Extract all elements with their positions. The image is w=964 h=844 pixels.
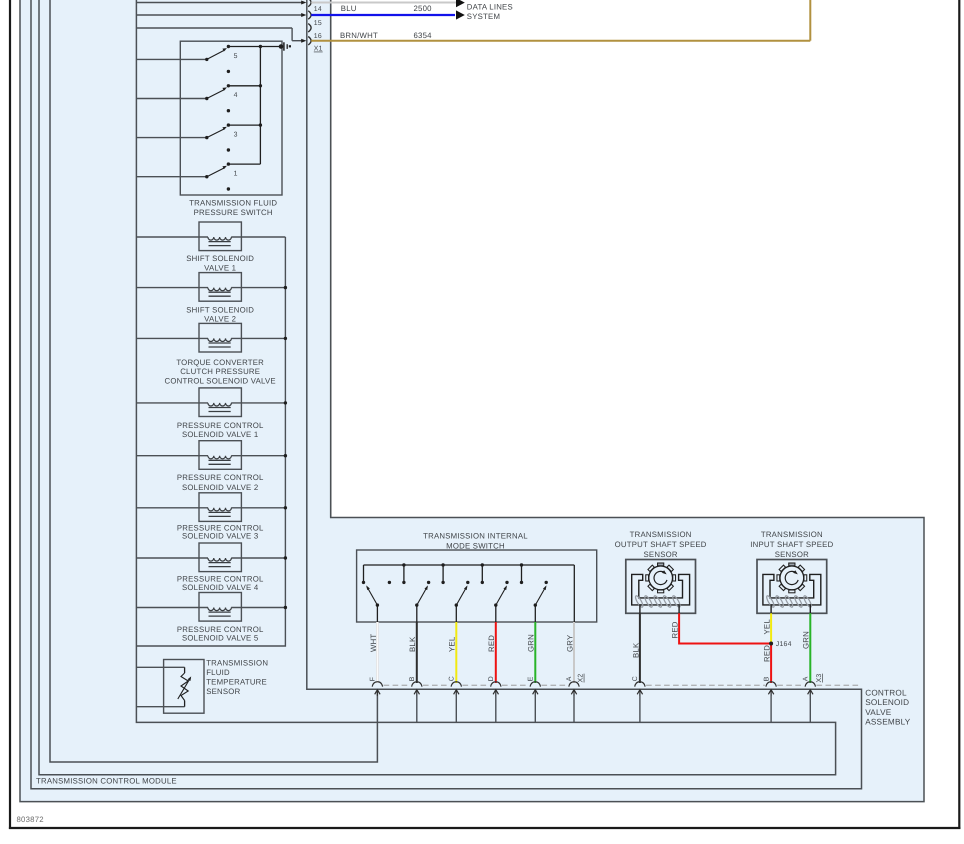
svg-text:TRANSMISSION INTERNAL: TRANSMISSION INTERNAL (423, 532, 528, 541)
svg-text:SENSOR: SENSOR (775, 550, 809, 559)
svg-text:X3: X3 (816, 674, 823, 683)
svg-text:2500: 2500 (414, 4, 433, 13)
svg-text:FLUID: FLUID (206, 668, 230, 677)
svg-text:VALVE 2: VALVE 2 (204, 315, 236, 324)
svg-text:14: 14 (314, 6, 322, 13)
svg-text:SOLENOID VALVE 5: SOLENOID VALVE 5 (182, 634, 259, 643)
svg-text:4: 4 (234, 92, 238, 99)
svg-text:RED: RED (487, 635, 496, 652)
svg-text:YEL: YEL (448, 636, 457, 652)
svg-text:RED: RED (763, 645, 772, 662)
svg-text:B: B (763, 676, 770, 681)
svg-text:F: F (370, 677, 377, 681)
svg-text:TEMPERATURE: TEMPERATURE (206, 677, 267, 686)
svg-text:6354: 6354 (414, 31, 433, 40)
svg-text:SHIFT SOLENOID: SHIFT SOLENOID (186, 254, 254, 263)
svg-text:VALVE: VALVE (865, 708, 892, 717)
svg-text:SOLENOID VALVE 1: SOLENOID VALVE 1 (182, 430, 258, 439)
svg-text:TRANSMISSION: TRANSMISSION (206, 659, 268, 668)
svg-text:SOLENOID VALVE 4: SOLENOID VALVE 4 (182, 583, 259, 592)
svg-text:X1: X1 (314, 46, 323, 53)
svg-text:BLU: BLU (341, 4, 357, 13)
svg-text:WHT: WHT (369, 634, 378, 652)
svg-text:D: D (488, 676, 495, 681)
svg-text:VALVE 1: VALVE 1 (204, 264, 236, 273)
svg-text:OUTPUT SHAFT SPEED: OUTPUT SHAFT SPEED (615, 540, 707, 549)
svg-text:SENSOR: SENSOR (644, 550, 678, 559)
svg-text:J164: J164 (776, 641, 792, 648)
svg-text:E: E (528, 676, 535, 681)
svg-text:1: 1 (234, 170, 238, 177)
svg-text:PRESSURE SWITCH: PRESSURE SWITCH (194, 208, 273, 217)
svg-text:SYSTEM: SYSTEM (467, 12, 500, 21)
svg-text:BLK: BLK (408, 636, 417, 652)
svg-text:TRANSMISSION FLUID: TRANSMISSION FLUID (189, 198, 277, 207)
svg-text:GRN: GRN (527, 634, 536, 652)
svg-text:ASSEMBLY: ASSEMBLY (865, 718, 911, 727)
svg-text:YEL: YEL (763, 619, 772, 635)
svg-text:3: 3 (234, 131, 238, 138)
svg-text:803872: 803872 (17, 815, 44, 824)
svg-text:BRN/WHT: BRN/WHT (340, 31, 378, 40)
svg-text:SOLENOID VALVE 2: SOLENOID VALVE 2 (182, 483, 258, 492)
svg-text:CLUTCH PRESSURE: CLUTCH PRESSURE (180, 367, 260, 376)
svg-text:SENSOR: SENSOR (206, 687, 240, 696)
svg-text:A: A (803, 676, 810, 681)
svg-text:RED: RED (671, 621, 680, 638)
svg-text:GRN: GRN (802, 631, 811, 649)
svg-text:PRESSURE CONTROL: PRESSURE CONTROL (177, 473, 264, 482)
svg-text:A: A (566, 676, 573, 681)
svg-text:5: 5 (234, 53, 238, 60)
svg-text:16: 16 (314, 33, 322, 40)
svg-text:TRANSMISSION: TRANSMISSION (630, 530, 692, 539)
svg-text:CONTROL SOLENOID VALVE: CONTROL SOLENOID VALVE (165, 376, 276, 385)
svg-text:SOLENOID VALVE 3: SOLENOID VALVE 3 (182, 532, 258, 541)
svg-text:X2: X2 (578, 674, 585, 683)
svg-text:B: B (409, 676, 416, 681)
svg-text:15: 15 (314, 20, 322, 27)
svg-text:PRESSURE CONTROL: PRESSURE CONTROL (177, 421, 264, 430)
svg-text:C: C (632, 676, 639, 681)
svg-text:GRY: GRY (565, 634, 574, 652)
svg-text:DATA LINES: DATA LINES (467, 3, 513, 12)
svg-text:SOLENOID: SOLENOID (865, 698, 909, 707)
svg-text:BLK: BLK (631, 642, 640, 658)
svg-text:SHIFT SOLENOID: SHIFT SOLENOID (186, 305, 254, 314)
svg-text:CONTROL: CONTROL (865, 688, 907, 697)
svg-text:C: C (449, 676, 456, 681)
svg-text:INPUT SHAFT SPEED: INPUT SHAFT SPEED (750, 540, 833, 549)
svg-text:TRANSMISSION: TRANSMISSION (761, 530, 823, 539)
svg-text:TRANSMISSION CONTROL MODULE: TRANSMISSION CONTROL MODULE (36, 777, 177, 786)
svg-text:TORQUE CONVERTER: TORQUE CONVERTER (176, 358, 264, 367)
svg-text:MODE SWITCH: MODE SWITCH (446, 541, 505, 550)
